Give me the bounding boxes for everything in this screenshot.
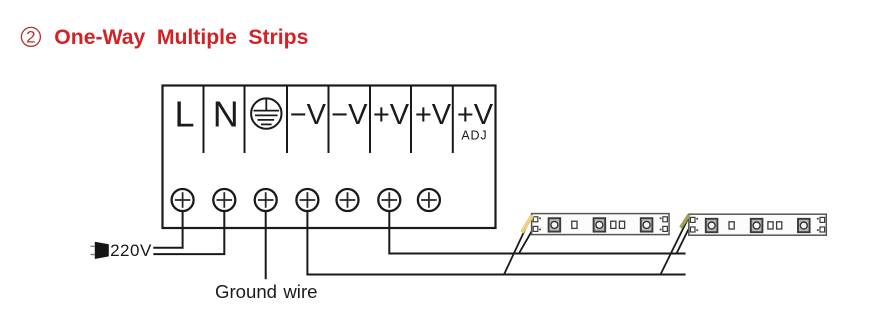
svg-text:ADJ: ADJ (461, 129, 487, 143)
svg-text:+V: +V (457, 99, 494, 131)
svg-text:2: 2 (26, 28, 35, 47)
svg-text:One-Way Multiple Strips: One-Way Multiple Strips (54, 26, 308, 49)
svg-text:220V: 220V (110, 241, 152, 260)
svg-text:+V: +V (373, 99, 410, 131)
svg-text:L: L (174, 94, 194, 135)
svg-text:−V: −V (290, 99, 327, 131)
svg-text:Ground wire: Ground wire (215, 281, 317, 302)
svg-text:N: N (213, 94, 239, 135)
svg-text:+V: +V (415, 99, 452, 131)
svg-text:−V: −V (331, 99, 368, 131)
